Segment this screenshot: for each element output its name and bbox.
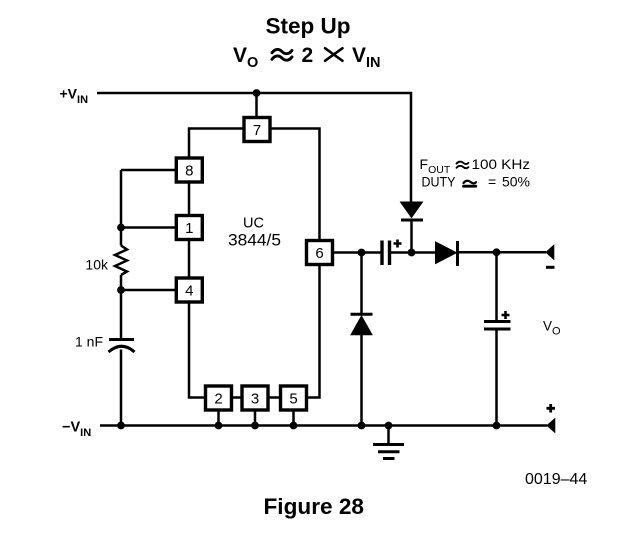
- capacitor C1 1nF curved bottom plate: [109, 346, 135, 352]
- svg-text:7: 7: [253, 122, 261, 139]
- svg-text:1: 1: [185, 220, 193, 237]
- svg-text:6: 6: [315, 245, 323, 262]
- FOUT approx symbol: [457, 162, 469, 169]
- polarity + of capacitor C3: [502, 311, 510, 319]
- pin 2 box: [206, 386, 232, 410]
- svg-text:10k: 10k: [85, 257, 109, 273]
- junction dot on +VIN rail at pin7 branch: [253, 89, 261, 97]
- title approx symbol: [272, 49, 292, 60]
- capacitor C2 right plate: [388, 241, 391, 266]
- svg-text:Figure 28: Figure 28: [264, 494, 365, 519]
- wire output cap branch upper: [495, 252, 498, 320]
- svg-text:2: 2: [214, 391, 222, 408]
- ground bar 3: [383, 457, 395, 460]
- wire output cap branch lower: [495, 331, 498, 426]
- svg-text:5: 5: [289, 391, 297, 408]
- rail dot diode CR2: [358, 422, 366, 430]
- pin 1 box: [176, 216, 202, 240]
- wire pin2 to bottom rail: [217, 410, 220, 426]
- diode CR1 cathode bar: [401, 219, 423, 222]
- diode CR3 right-pointing triangle: [436, 242, 457, 264]
- svg-text:8: 8: [185, 163, 193, 180]
- svg-text:UC: UC: [243, 216, 264, 232]
- diode CR2 up-pointing triangle: [351, 316, 372, 335]
- op IC body UC3844/5 outline: [189, 129, 320, 398]
- ground stem: [387, 426, 390, 444]
- DUTY approx-equal symbol: [464, 181, 477, 184]
- wire diode CR3 to output: [458, 251, 547, 254]
- wire from node to pin 4: [121, 289, 176, 292]
- output terminal minus triangle: [546, 245, 554, 259]
- resistor R1 10k zigzag: [115, 246, 127, 276]
- bottom rail -VIN: [100, 424, 547, 427]
- rail dot pin5: [290, 422, 298, 430]
- title times symbol: [325, 48, 343, 61]
- capacitor C3 top plate: [484, 320, 511, 323]
- node dot at pin1 level: [117, 224, 125, 232]
- wire diode CR2 to bottom rail: [360, 335, 363, 426]
- diode CR3 cathode bar: [456, 241, 459, 266]
- pin 4 box: [176, 278, 202, 302]
- wire diode CR1 to junction: [410, 220, 413, 253]
- ground bar 1: [373, 443, 404, 446]
- capacitor C2 left plate: [380, 241, 383, 266]
- rail dot pin2: [215, 422, 223, 430]
- wire from +VIN rail down to pin 7: [255, 93, 258, 118]
- ground bar 2: [378, 450, 400, 453]
- rail dot ground: [385, 422, 393, 430]
- wire node down to capacitor C1: [120, 290, 123, 426]
- wire left loop vertical upper segment: [120, 170, 123, 246]
- svg-text:3844/5: 3844/5: [228, 232, 281, 250]
- wire node down to diode CR2: [360, 253, 363, 314]
- wire pin3 to bottom rail: [254, 410, 257, 426]
- pin 6 box: [307, 241, 333, 265]
- rail dot output cap: [493, 422, 501, 430]
- wire resistor to node: [120, 275, 123, 290]
- wire cap C2 to diode junction: [391, 251, 436, 254]
- pin 7 box: [244, 118, 270, 142]
- capacitor C3 bottom plate: [484, 328, 511, 331]
- output terminal plus triangle: [547, 419, 555, 433]
- svg-text:1 nF: 1 nF: [75, 334, 103, 350]
- pin 5 box: [281, 386, 307, 410]
- svg-text:4: 4: [185, 283, 193, 300]
- pin 8 box: [176, 158, 202, 182]
- label plus: [547, 404, 556, 413]
- svg-text:0019–44: 0019–44: [525, 471, 587, 488]
- pin 3 box: [242, 386, 268, 410]
- svg-text:Step Up: Step Up: [266, 14, 351, 39]
- node dot at pin4 level: [117, 286, 125, 294]
- junction dot at output cap top: [493, 248, 501, 256]
- rail dot pin3: [251, 422, 259, 430]
- wire from node to pin 1: [121, 226, 176, 229]
- wire pin 6 to coupling cap: [333, 251, 382, 254]
- rail dot at 1nF branch: [117, 422, 125, 430]
- polarity + of capacitor C2: [394, 240, 402, 248]
- junction dot at flying-cap node: [358, 249, 366, 257]
- diode CR1 down-pointing triangle: [401, 202, 423, 218]
- wire from pin 8 left to left loop: [121, 169, 176, 172]
- capacitor C1 1nF top plate: [109, 338, 134, 341]
- junction dot below diode CR1: [408, 249, 416, 257]
- diode CR2 up-pointing cathode bar: [351, 313, 373, 316]
- label minus: [546, 266, 555, 269]
- wire +VIN rail top, corner down to diode CR1: [97, 93, 411, 202]
- svg-text:3: 3: [251, 391, 259, 408]
- wire pin5 to bottom rail: [292, 410, 295, 426]
